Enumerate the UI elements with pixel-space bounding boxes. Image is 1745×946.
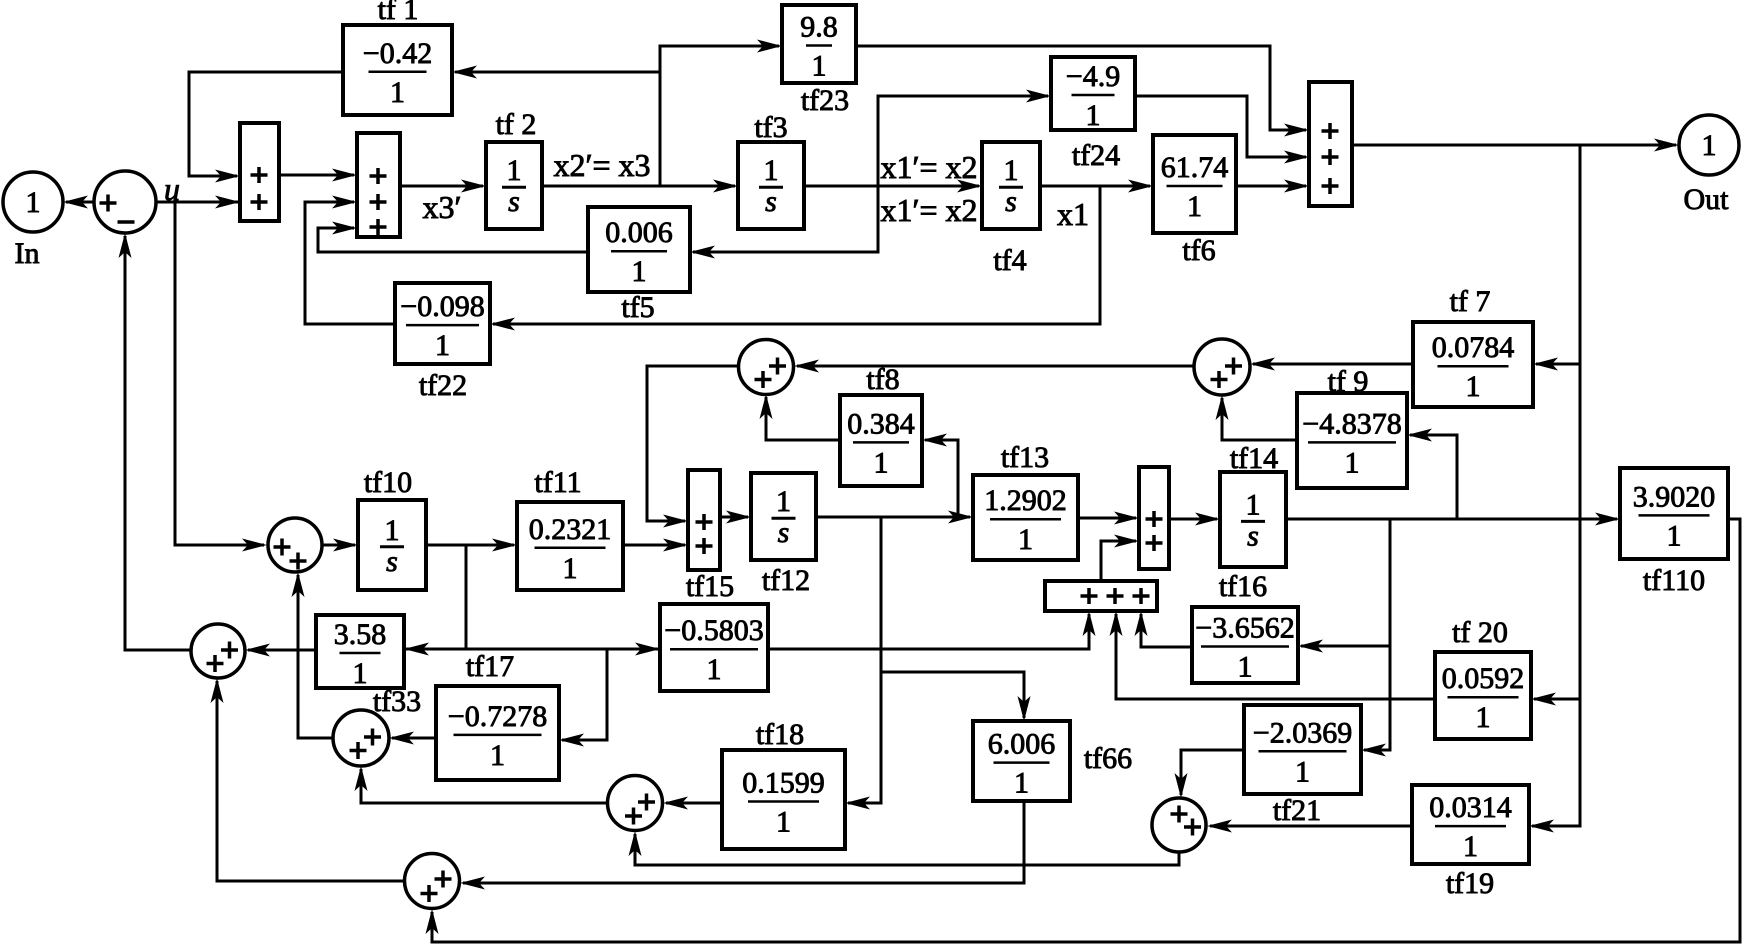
label tf11 bbox=[534, 466, 581, 499]
wire w_tf17_out bbox=[389, 732, 436, 745]
svg-text:In: In bbox=[15, 237, 40, 270]
summing junction sumC bbox=[1194, 339, 1250, 395]
svg-text:tf13: tf13 bbox=[1001, 441, 1049, 474]
label tf21 bbox=[1273, 794, 1321, 827]
summing junction sumH bbox=[1152, 798, 1206, 852]
label tf14 bbox=[1230, 442, 1278, 475]
wire w_tf1_in bbox=[452, 66, 660, 79]
svg-text:0.0784: 0.0784 bbox=[1432, 331, 1515, 364]
label tf17 bbox=[466, 650, 514, 683]
svg-text:1.2902: 1.2902 bbox=[984, 484, 1067, 517]
svg-text:tf10: tf10 bbox=[364, 466, 412, 499]
wire w_tf16_in bbox=[1298, 640, 1390, 653]
svg-text:−2.0369: −2.0369 bbox=[1253, 716, 1352, 749]
svg-text:tf17: tf17 bbox=[466, 650, 514, 683]
svg-text:s: s bbox=[1005, 185, 1017, 218]
block tf33: 3.58/1 bbox=[316, 615, 404, 690]
svg-text:1: 1 bbox=[1295, 755, 1310, 788]
svg-text:x1′= x2: x1′= x2 bbox=[880, 192, 977, 228]
wire w_out bbox=[1352, 139, 1679, 152]
wire w_tf20_in bbox=[1531, 693, 1580, 706]
wire w_tf7_out bbox=[1250, 358, 1413, 371]
svg-text:x1′= x2: x1′= x2 bbox=[880, 149, 977, 185]
block tf12: 1/s bbox=[751, 473, 816, 560]
wire w_sumR2_out bbox=[400, 180, 486, 193]
wire w_tf24_in bbox=[878, 90, 1051, 187]
label tf 20 bbox=[1452, 616, 1508, 649]
svg-text:−0.098: −0.098 bbox=[400, 290, 484, 323]
wire w_tf4_tf6 bbox=[1040, 180, 1153, 193]
svg-text:1: 1 bbox=[1246, 488, 1261, 521]
block tf10: 1/s bbox=[358, 500, 426, 590]
svg-text:1: 1 bbox=[1702, 129, 1717, 162]
wire w_tf3_tf4 bbox=[804, 180, 982, 193]
svg-text:tf12: tf12 bbox=[762, 564, 810, 597]
block tf15: −0.5803/1 bbox=[660, 604, 768, 691]
wire w_sumI_out bbox=[211, 678, 405, 881]
label tf 2 bbox=[496, 108, 537, 141]
wire w_tf66_out bbox=[460, 801, 1024, 890]
wire w_tf2_tf3 bbox=[542, 180, 738, 193]
label tf 7 bbox=[1450, 285, 1491, 318]
wire w_tf22_in bbox=[490, 186, 1100, 331]
svg-text:−0.7278: −0.7278 bbox=[448, 700, 547, 733]
label tf66 bbox=[1084, 742, 1132, 775]
block tf66: 6.006/1 bbox=[973, 721, 1070, 801]
block tf16: −3.6562/1 bbox=[1192, 607, 1298, 684]
svg-text:1: 1 bbox=[490, 739, 505, 772]
wire w_sumR1_out bbox=[279, 169, 357, 182]
svg-text:s: s bbox=[765, 185, 777, 218]
wire w_sumH_out bbox=[629, 831, 1180, 865]
block tf9: −4.8378/1 bbox=[1297, 393, 1407, 488]
svg-text:tf 7: tf 7 bbox=[1450, 285, 1491, 318]
svg-text:tf19: tf19 bbox=[1446, 867, 1494, 900]
wire w_tf33_out bbox=[245, 644, 316, 657]
block tf19: 0.0314/1 bbox=[1412, 785, 1529, 864]
block tf22: −0.098/1 bbox=[395, 283, 490, 364]
svg-text:3.9020: 3.9020 bbox=[1633, 480, 1716, 513]
wire w_tf8_out bbox=[760, 394, 841, 440]
svg-text:1: 1 bbox=[507, 154, 522, 187]
svg-text:1: 1 bbox=[1238, 651, 1253, 684]
block tf21: −2.0369/1 bbox=[1244, 705, 1361, 794]
wire w_sumB_out bbox=[647, 366, 739, 528]
wire w_tf23_out bbox=[856, 46, 1309, 137]
block tf8: 0.384/1 bbox=[840, 395, 922, 486]
block tf7: 0.0784/1 bbox=[1413, 322, 1533, 407]
block tf24: −4.9/1 bbox=[1051, 57, 1135, 132]
svg-text:tf15: tf15 bbox=[686, 570, 734, 603]
node label x1′= x2 bbox=[880, 192, 977, 228]
wire w_tf110_out bbox=[426, 519, 1741, 942]
block tf11: 0.2321/1 bbox=[517, 502, 623, 590]
svg-text:1: 1 bbox=[632, 255, 647, 288]
summing junction sumB bbox=[739, 340, 794, 395]
svg-text:1: 1 bbox=[26, 186, 41, 219]
summing block sumR5 bbox=[1139, 467, 1169, 569]
label tf24 bbox=[1072, 139, 1120, 172]
svg-text:1: 1 bbox=[390, 76, 405, 109]
summing junction sumA bbox=[94, 171, 156, 233]
block tf23: 9.8/1 bbox=[782, 5, 856, 83]
wire w_tf8_in bbox=[922, 434, 958, 518]
svg-text:0.1599: 0.1599 bbox=[742, 766, 825, 799]
svg-text:tf33: tf33 bbox=[373, 685, 421, 718]
summing block sumR1 bbox=[240, 123, 279, 221]
svg-text:−0.5803: −0.5803 bbox=[664, 614, 763, 647]
summing junction sumF bbox=[333, 710, 389, 766]
svg-text:1: 1 bbox=[1476, 701, 1491, 734]
svg-text:0.384: 0.384 bbox=[847, 407, 915, 440]
svg-text:9.8: 9.8 bbox=[800, 11, 838, 44]
port In_port bbox=[3, 172, 63, 232]
wire w_u bbox=[157, 196, 240, 209]
block tf18: 0.1599/1 bbox=[722, 750, 845, 849]
wire w_sumR5_out bbox=[1169, 513, 1220, 526]
wire w_tf1_out bbox=[189, 72, 343, 183]
label tf23 bbox=[801, 84, 849, 117]
svg-text:1: 1 bbox=[1463, 830, 1478, 863]
label tf8 bbox=[866, 363, 899, 396]
label tf16 bbox=[1219, 570, 1267, 603]
wire w_tf21_out bbox=[1175, 750, 1245, 798]
wire w_sumC_sumB bbox=[794, 360, 1194, 373]
wire w_sumR6_out bbox=[1101, 535, 1139, 582]
svg-text:tf3: tf3 bbox=[754, 111, 787, 144]
svg-text:1: 1 bbox=[1345, 446, 1360, 479]
node label x1 bbox=[1057, 196, 1089, 232]
label tf 9 bbox=[1328, 365, 1369, 398]
svg-text:tf11: tf11 bbox=[534, 466, 581, 499]
wire w_tf19_out bbox=[1207, 820, 1412, 833]
svg-text:1: 1 bbox=[1187, 190, 1202, 223]
svg-text:tf24: tf24 bbox=[1072, 139, 1120, 172]
svg-text:1: 1 bbox=[353, 657, 368, 690]
wire w_sumE_sumA bbox=[119, 233, 192, 650]
label Out bbox=[1684, 183, 1730, 216]
label tf10 bbox=[364, 466, 412, 499]
svg-text:1: 1 bbox=[1466, 370, 1481, 403]
svg-text:1: 1 bbox=[776, 805, 791, 838]
svg-text:1: 1 bbox=[1086, 99, 1101, 132]
wire w_tf22_out bbox=[305, 196, 395, 325]
label tf13 bbox=[1001, 441, 1049, 474]
svg-text:1: 1 bbox=[776, 485, 791, 518]
svg-text:tf 1: tf 1 bbox=[378, 0, 419, 26]
svg-text:tf14: tf14 bbox=[1230, 442, 1278, 475]
wire w_sumA_in bbox=[63, 196, 94, 209]
wire w_tf7_in bbox=[1533, 358, 1580, 371]
svg-text:tf 9: tf 9 bbox=[1328, 365, 1369, 398]
svg-text:x2′= x3: x2′= x3 bbox=[553, 147, 650, 183]
svg-text:tf22: tf22 bbox=[419, 369, 467, 402]
svg-text:tf8: tf8 bbox=[866, 363, 899, 396]
svg-text:0.0314: 0.0314 bbox=[1429, 791, 1512, 824]
node label x1′= x2 bbox=[880, 149, 977, 185]
block tf110: 3.9020/1 bbox=[1620, 468, 1728, 559]
node label u bbox=[164, 171, 180, 207]
wire w_x3_up bbox=[660, 40, 782, 187]
svg-text:0.0592: 0.0592 bbox=[1442, 662, 1525, 695]
svg-text:1: 1 bbox=[874, 446, 889, 479]
svg-text:tf 20: tf 20 bbox=[1452, 616, 1508, 649]
wire w_sumF_out bbox=[292, 572, 334, 738]
summing junction sumE bbox=[191, 624, 245, 678]
block tf1: −0.42/1 bbox=[343, 25, 452, 115]
label tf18 bbox=[756, 718, 804, 751]
block tf14: 1/s bbox=[1220, 472, 1286, 567]
port Out_port bbox=[1679, 115, 1739, 175]
svg-text:s: s bbox=[508, 185, 520, 218]
svg-text:Out: Out bbox=[1684, 183, 1730, 216]
wire w_sumG_out bbox=[355, 766, 609, 803]
svg-text:61.74: 61.74 bbox=[1161, 151, 1229, 184]
summing block sumR4 bbox=[688, 470, 720, 570]
wire w_tf66_in bbox=[881, 672, 1031, 721]
svg-text:u: u bbox=[164, 171, 180, 207]
svg-text:tf16: tf16 bbox=[1219, 570, 1267, 603]
svg-text:1: 1 bbox=[1014, 767, 1029, 800]
wire w_tf10_out bbox=[426, 539, 517, 552]
svg-text:tf4: tf4 bbox=[993, 244, 1026, 277]
svg-text:tf66: tf66 bbox=[1084, 742, 1132, 775]
svg-text:0.006: 0.006 bbox=[605, 216, 673, 249]
block tf6: 61.74/1 bbox=[1153, 135, 1236, 233]
wire w_sumR4_out bbox=[720, 511, 751, 524]
svg-text:−4.8378: −4.8378 bbox=[1302, 407, 1401, 440]
block tf2: 1/s bbox=[486, 142, 542, 229]
svg-text:3.58: 3.58 bbox=[334, 618, 387, 651]
wire w_tf9_out bbox=[1216, 395, 1298, 440]
block tf17: −0.7278/1 bbox=[436, 686, 559, 780]
summing junction sumD bbox=[268, 518, 322, 572]
wire w_y649 bbox=[404, 643, 660, 656]
svg-text:tf18: tf18 bbox=[756, 718, 804, 751]
svg-text:6.006: 6.006 bbox=[988, 728, 1056, 761]
label tf12 bbox=[762, 564, 810, 597]
label tf 1 bbox=[378, 0, 419, 26]
svg-text:1: 1 bbox=[1667, 519, 1682, 552]
label tf15 bbox=[686, 570, 734, 603]
wire w_tf10_br bbox=[465, 545, 468, 649]
svg-text:1: 1 bbox=[1018, 523, 1033, 556]
svg-text:−3.6562: −3.6562 bbox=[1195, 612, 1294, 645]
wire w_u_down bbox=[175, 202, 267, 552]
node label x2′= x3 bbox=[553, 147, 650, 183]
wire w_tf21_in bbox=[1361, 519, 1390, 757]
wire w_tf6_out bbox=[1236, 180, 1309, 193]
summing junction sumG bbox=[608, 776, 663, 831]
wire w_tf14_out bbox=[1286, 513, 1620, 526]
svg-text:1: 1 bbox=[812, 50, 827, 83]
summing junction sumI bbox=[405, 854, 460, 909]
wire w_tf12_out bbox=[816, 511, 973, 524]
wire w_fb_right bbox=[1529, 145, 1580, 833]
block tf4: 1/s bbox=[982, 142, 1040, 229]
svg-text:1: 1 bbox=[385, 514, 400, 547]
label tf3 bbox=[754, 111, 787, 144]
svg-text:1: 1 bbox=[435, 329, 450, 362]
wire w_tf18_out bbox=[663, 797, 722, 810]
svg-text:s: s bbox=[386, 545, 398, 578]
wire w_tf18_in bbox=[845, 517, 881, 810]
svg-text:tf23: tf23 bbox=[801, 84, 849, 117]
summing block sumR3 bbox=[1309, 82, 1352, 206]
svg-text:−4.9: −4.9 bbox=[1066, 60, 1120, 93]
svg-text:tf110: tf110 bbox=[1643, 564, 1705, 597]
svg-text:tf 2: tf 2 bbox=[496, 108, 537, 141]
block tf5: 0.006/1 bbox=[588, 207, 690, 292]
wire w_tf11_out bbox=[623, 539, 688, 552]
svg-text:tf5: tf5 bbox=[621, 291, 654, 324]
block tf13: 1.2902/1 bbox=[973, 475, 1078, 560]
svg-text:1: 1 bbox=[764, 154, 779, 187]
svg-text:1: 1 bbox=[1004, 154, 1019, 187]
wire w_tf24_out bbox=[1135, 96, 1309, 164]
wire w_tf20_out bbox=[1110, 611, 1436, 699]
svg-text:x1: x1 bbox=[1057, 196, 1089, 232]
label In bbox=[15, 237, 40, 270]
wire w_tf17_in bbox=[559, 649, 607, 747]
label tf33 bbox=[373, 685, 421, 718]
svg-text:−0.42: −0.42 bbox=[363, 37, 432, 70]
label tf4 bbox=[993, 244, 1026, 277]
svg-text:tf6: tf6 bbox=[1182, 234, 1215, 267]
label tf6 bbox=[1182, 234, 1215, 267]
svg-text:1: 1 bbox=[563, 552, 578, 585]
label tf19 bbox=[1446, 867, 1494, 900]
svg-text:0.2321: 0.2321 bbox=[529, 513, 612, 546]
label tf110 bbox=[1643, 564, 1705, 597]
block tf3: 1/s bbox=[738, 142, 804, 229]
block tf20: 0.0592/1 bbox=[1435, 652, 1531, 739]
wire w_tf15_out bbox=[768, 611, 1096, 649]
node label x3′ bbox=[423, 189, 462, 225]
wire w_tf5_out bbox=[318, 222, 588, 253]
wire w_tf5_in bbox=[690, 186, 878, 259]
summing block sumR6 bbox=[1045, 581, 1157, 611]
label tf5 bbox=[621, 291, 654, 324]
summing block sumR2 bbox=[357, 133, 400, 237]
svg-text:s: s bbox=[1247, 519, 1259, 552]
wire w_tf16_out bbox=[1135, 611, 1193, 647]
wire w_sumD_out bbox=[322, 539, 358, 552]
svg-text:s: s bbox=[778, 516, 790, 549]
svg-text:x3′: x3′ bbox=[423, 189, 462, 225]
label tf22 bbox=[419, 369, 467, 402]
wire w_tf9_in bbox=[1407, 429, 1457, 520]
svg-text:tf21: tf21 bbox=[1273, 794, 1321, 827]
svg-text:1: 1 bbox=[707, 653, 722, 686]
wire w_tf13_out bbox=[1078, 512, 1139, 525]
